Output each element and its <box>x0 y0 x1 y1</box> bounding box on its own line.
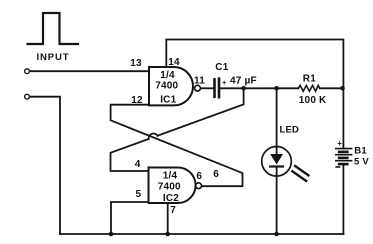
svg-text:12: 12 <box>131 95 143 106</box>
svg-text:+: + <box>222 78 227 87</box>
svg-text:1/4: 1/4 <box>163 171 178 182</box>
svg-text:5: 5 <box>136 189 142 200</box>
svg-text:11: 11 <box>194 75 205 86</box>
svg-text:5 V: 5 V <box>354 157 369 168</box>
svg-text:7: 7 <box>170 205 176 216</box>
svg-text:47 µF: 47 µF <box>230 76 257 87</box>
svg-text:6: 6 <box>213 169 219 180</box>
svg-text:1/4: 1/4 <box>160 70 175 81</box>
svg-text:IC2: IC2 <box>163 193 179 204</box>
svg-text:100 K: 100 K <box>299 95 327 106</box>
svg-text:4: 4 <box>135 159 141 170</box>
svg-text:C1: C1 <box>215 62 228 73</box>
svg-text:+: + <box>337 139 342 148</box>
svg-text:INPUT: INPUT <box>37 52 70 63</box>
svg-text:R1: R1 <box>303 74 316 85</box>
svg-text:LED: LED <box>280 125 300 136</box>
svg-text:14: 14 <box>168 57 180 68</box>
svg-text:7400: 7400 <box>155 81 178 92</box>
svg-text:6: 6 <box>196 171 202 182</box>
svg-text:IC1: IC1 <box>160 95 176 106</box>
svg-text:7400: 7400 <box>158 182 181 193</box>
svg-text:13: 13 <box>130 58 142 69</box>
svg-text:B1: B1 <box>354 146 367 157</box>
